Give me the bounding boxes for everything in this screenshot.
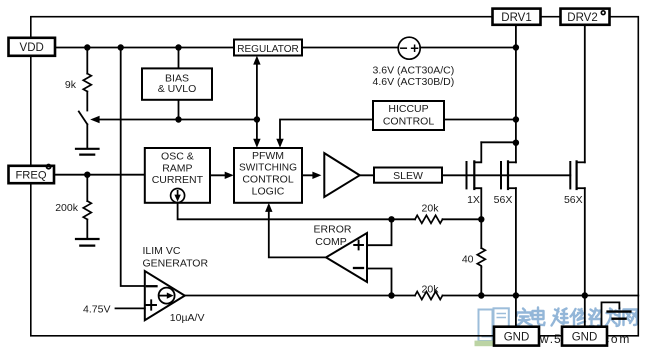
svg-text:SWITCHING: SWITCHING (239, 162, 297, 174)
watermark overlay (475, 308, 638, 347)
svg-text:1X: 1X (467, 194, 480, 206)
svg-text:CONTROL: CONTROL (242, 174, 293, 186)
svg-text:56X: 56X (494, 194, 513, 206)
junction VDD/9k (84, 44, 90, 50)
wire error comp output to PFWM (arrow up) (269, 206, 326, 257)
function blocks (142, 40, 444, 203)
op-amp ILIM VC generator triangle (145, 271, 185, 320)
arrowhead ILIM current source (right) (167, 293, 174, 299)
block OSC & RAMP CURRENT (145, 148, 210, 203)
wire DRV1 vertical (lower, to GND1) (515, 188, 517, 327)
junction VDD net/DRV1 (513, 44, 519, 50)
wire error comp non-inverting input (367, 219, 392, 245)
op-amp sign error comp plus (354, 241, 363, 250)
svg-text:ERROR: ERROR (314, 224, 352, 236)
wire buffer to SLEW (360, 174, 374, 176)
junction FREQ/200k (84, 172, 90, 178)
arrowhead OSC to PFWM (right) (225, 172, 234, 179)
svg-text:GND: GND (572, 331, 598, 343)
wire DRV2 vertical (lower, to GND2) (584, 188, 586, 327)
capacitor at GND2 pin (602, 302, 620, 326)
transistor M3 (56X) (569, 162, 571, 188)
ground (200k branch) (76, 238, 99, 240)
buffer amplifier triangle (324, 153, 359, 197)
block HICCUP CONTROL (373, 101, 444, 130)
resistor 20k (upper) (415, 215, 443, 223)
pin VDD (9, 38, 56, 56)
wire VDD bus (VDD pin to REGULATOR) (55, 47, 234, 49)
svg-text:CURRENT: CURRENT (152, 174, 204, 186)
svg-text:OSC &: OSC & (161, 150, 194, 162)
wire error comp inverting input (367, 269, 392, 296)
wire ILIM VC inverting input is above; ILIM non-inverting input wire (116, 307, 145, 309)
arrowhead error comp out to PFWM (up) (265, 203, 272, 212)
svg-text:& UVLO: & UVLO (158, 83, 197, 95)
error comparator triangle (326, 233, 367, 282)
resistor 9k (86, 48, 88, 74)
svg-text:4.75V: 4.75V (83, 304, 110, 316)
block SLEW (374, 168, 442, 183)
watermark book logo (479, 308, 509, 341)
block PFWM SWITCHING CONTROL LOGIC (234, 148, 302, 203)
svg-text:CONTROL: CONTROL (383, 115, 434, 127)
watermark url text (518, 332, 631, 346)
svg-text:ILIM VC: ILIM VC (143, 245, 181, 257)
arrowhead into REGULATOR (up) (253, 56, 260, 65)
arrowhead into PFWM top right (down) (276, 139, 283, 148)
pin GND (right) (562, 327, 607, 346)
junction HICCUP/DRV1 (513, 116, 519, 122)
junction gnd net/40 (478, 292, 484, 298)
wire to PFWM top (left arrow down) (256, 120, 258, 145)
svg-text:VDD: VDD (20, 42, 44, 54)
svg-text:4.6V (ACT30B/D): 4.6V (ACT30B/D) (373, 76, 455, 88)
wire VDD net to ILIM inverting input (121, 48, 145, 287)
junction gnd net/GND1 (513, 292, 519, 298)
wire PFWM to buffer (arrow right) (302, 174, 318, 176)
op-amp sign error comp minus (354, 267, 363, 269)
current source in ILIM block (10uA/V) (159, 288, 175, 304)
svg-text:PFWM: PFWM (252, 150, 284, 162)
arrowhead OSC current source (down) (175, 195, 181, 202)
arrowhead PFWM to buffer (right) (312, 172, 321, 179)
pin DRV1 (493, 9, 541, 25)
wire REGULATOR output to offset source (302, 47, 398, 49)
resistor 40 (480, 219, 482, 248)
svg-text:FREQ: FREQ (15, 170, 46, 182)
wire ILIM output / bottom GND net (185, 295, 415, 297)
svg-text:DRV2: DRV2 (567, 12, 597, 24)
watermark chinese characters (517, 308, 638, 327)
wire HICCUP to DRV1 net (444, 119, 516, 121)
wire to REGULATOR (arrow up) (256, 59, 258, 120)
junction VDD/ILIM line (118, 44, 124, 50)
current source circle on OSC block edge (171, 189, 185, 203)
pin FREQ (9, 166, 55, 183)
svg-text:SLEW: SLEW (393, 170, 423, 182)
wire M1 drain to DRV1 net (481, 141, 516, 143)
transistor M2 (56X) (500, 162, 502, 188)
svg-text:200k: 200k (55, 202, 79, 214)
op-amp sign ILIM minus (147, 285, 157, 287)
op-amp sign ILIM plus (147, 300, 157, 309)
watermark green bar (475, 341, 497, 347)
block REGULATOR (234, 40, 302, 56)
svg-text:56X: 56X (564, 194, 583, 206)
resistor 200k (86, 175, 88, 201)
svg-text:9k: 9k (65, 79, 77, 91)
svg-text:10µA/V: 10µA/V (170, 312, 205, 324)
junction VDD/BIAS (175, 44, 181, 50)
resistor 20k (lower) (415, 292, 443, 300)
arrowhead into switch (left) (90, 116, 99, 123)
junction UVLO line/REGULATOR arrow (254, 116, 260, 122)
svg-text:LOGIC: LOGIC (252, 185, 285, 197)
switch SW1 blade (79, 112, 88, 125)
arrowheads (90, 56, 321, 299)
svg-text:20k: 20k (422, 283, 440, 295)
svg-text:RAMP: RAMP (162, 162, 192, 174)
wire FREQ to OSC (54, 174, 145, 176)
wire DRV2 vertical (upper) (584, 25, 586, 163)
wire SLEW to output transistor gates (442, 174, 570, 176)
svg-text:REGULATOR: REGULATOR (237, 43, 299, 55)
wire BIAS bottom stub (178, 100, 180, 120)
block BIAS & UVLO (142, 68, 212, 99)
offset voltage source circle (398, 37, 420, 59)
label DRV2 footnote mark (601, 11, 605, 15)
wire HICCUP to PFWM top (right arrow down) (280, 120, 373, 145)
junction error net/40 (478, 216, 484, 222)
pin GND (left) (494, 327, 539, 346)
junction gnd net/comp minus (388, 292, 394, 298)
svg-text:DRV1: DRV1 (501, 12, 531, 24)
transistor M1 (1X) (466, 162, 468, 188)
wire BIAS top stub (178, 48, 180, 69)
svg-text:20k: 20k (422, 203, 440, 215)
junction error net/comp plus (388, 216, 394, 222)
wire switch control line (99, 119, 257, 121)
svg-text:GENERATOR: GENERATOR (143, 257, 209, 269)
junction M1 drain/DRV1 (513, 140, 519, 146)
wire OSC current source to error net (178, 203, 415, 220)
svg-text:3.6V (ACT30A/C): 3.6V (ACT30A/C) (373, 64, 455, 76)
svg-text:40: 40 (462, 253, 474, 265)
wire OSC to PFWM (arrow right) (210, 174, 231, 176)
wire DRV1 vertical (upper) (515, 25, 517, 163)
junction BIAS/UVLO line (175, 116, 181, 122)
junction gnd net/GND2 (582, 292, 588, 298)
svg-text:GND: GND (504, 331, 530, 343)
ground (9k branch) (76, 148, 99, 150)
wire offset source to DRV1 net (420, 47, 516, 49)
svg-text:COMP: COMP (315, 236, 347, 248)
pin DRV2 (561, 9, 610, 25)
arrowhead into PFWM top left (down) (253, 139, 260, 148)
label FREQ footnote mark (47, 165, 51, 169)
svg-text:HICCUP: HICCUP (388, 103, 428, 115)
